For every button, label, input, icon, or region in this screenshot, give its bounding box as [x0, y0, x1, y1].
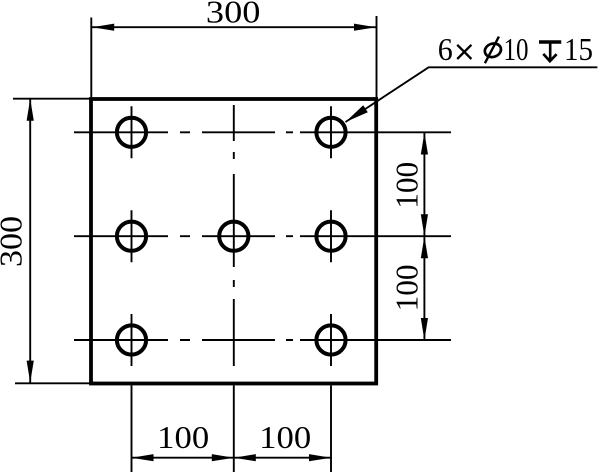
svg-text:300: 300 [206, 0, 261, 30]
svg-text:100: 100 [390, 162, 425, 209]
bottom dimension arrow left [132, 454, 154, 461]
right dimension arrow middle down [421, 214, 428, 236]
leader multiply sign [457, 45, 471, 59]
left dimension line 300 [29, 99, 31, 383]
bottom dimension arrow right [309, 454, 331, 461]
top dimension arrow left [92, 24, 114, 31]
centerline row 1 [74, 131, 451, 133]
centerline row 2 [74, 235, 451, 237]
left dimension arrow bottom [27, 361, 34, 383]
bottom extension line column 3 [330, 386, 332, 473]
depth symbol [539, 42, 561, 61]
centerline column 3 (hole crosses) [330, 106, 332, 366]
bottom dimension arrow middle right [212, 454, 234, 461]
svg-text:100: 100 [259, 420, 311, 455]
top dimension arrow right [354, 24, 376, 31]
hole H3 middle-left [117, 222, 146, 251]
svg-text:10: 10 [504, 32, 529, 67]
svg-text:15: 15 [564, 32, 593, 67]
left dimension extension line bottom [15, 382, 91, 384]
right dimension arrow bottom down [421, 318, 428, 340]
hole H7 bottom-right [316, 325, 345, 354]
right dimension arrow middle up [421, 236, 428, 258]
hole H1 top-left [117, 118, 146, 147]
left dimension arrow top [27, 99, 34, 121]
bottom extension line column 2 [233, 386, 235, 473]
top dimension extension line left [90, 18, 92, 100]
centerline row 3 [74, 339, 451, 341]
svg-text:300: 300 [0, 216, 29, 267]
right dimension line 100/100 [423, 133, 425, 341]
hole H6 bottom-left [117, 325, 146, 354]
plate outline [91, 99, 376, 384]
leader arrow [346, 105, 368, 122]
centerline column 1 (hole crosses) [131, 106, 133, 366]
hole H5 middle-right [316, 222, 345, 251]
leader symbol phi (diameter) [483, 37, 503, 64]
centerline column 2 (dash-dot) [233, 105, 235, 366]
bottom dimension arrow middle left [234, 454, 256, 461]
right dimension arrow top up [421, 133, 428, 155]
hole H4 middle-center [219, 222, 248, 251]
svg-text:6: 6 [438, 32, 453, 67]
bottom dimension line 100/100 [132, 457, 332, 459]
leader line [346, 67, 598, 122]
top dimension extension line right [376, 16, 378, 99]
svg-text:100: 100 [390, 264, 425, 311]
bottom extension line column 1 [131, 386, 133, 473]
left dimension extension line top [13, 98, 91, 100]
hole H2 top-right [316, 118, 345, 147]
svg-text:100: 100 [157, 420, 209, 455]
top dimension line 300 [92, 26, 376, 28]
